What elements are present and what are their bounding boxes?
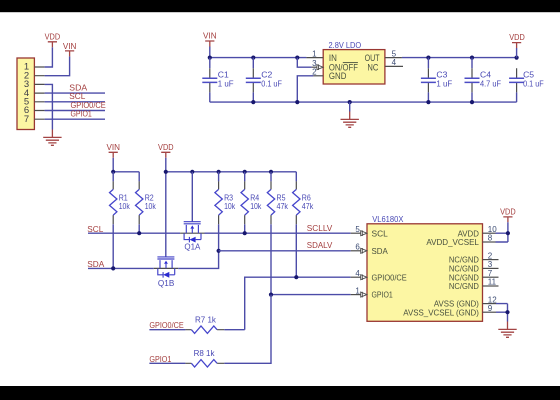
power flag VIN (pull-up rail) bbox=[106, 143, 120, 158]
U1 pin 10 stub AVDD bbox=[483, 225, 498, 234]
LDO pin 5 stub OUT bbox=[385, 57, 402, 59]
wire GPIO0/CE to R7 bbox=[149, 329, 185, 331]
LDO pin 1 stub bbox=[306, 57, 323, 59]
svg-text:VDD: VDD bbox=[500, 208, 516, 217]
svg-text:1: 1 bbox=[312, 49, 317, 58]
node VDD rail entry bbox=[164, 170, 168, 174]
svg-text:AVDD_VCSEL: AVDD_VCSEL bbox=[426, 237, 479, 247]
svg-text:10k: 10k bbox=[119, 202, 131, 211]
svg-text:1: 1 bbox=[355, 286, 360, 295]
wire LDO pin2 GND to bottom rail bbox=[297, 76, 313, 102]
resistor R8 1k bbox=[185, 349, 224, 367]
connector J1 body bbox=[17, 58, 34, 130]
U1 pin 7 stub NC/GND bbox=[483, 269, 499, 278]
svg-text:0.1 uF: 0.1 uF bbox=[261, 79, 282, 88]
node C3 top bbox=[426, 56, 430, 60]
svg-text:VIN: VIN bbox=[203, 32, 217, 41]
svg-text:1 uF: 1 uF bbox=[218, 79, 234, 88]
power flag VIN (connector) bbox=[63, 42, 77, 57]
svg-text:AVSS_VCSEL (GND): AVSS_VCSEL (GND) bbox=[403, 308, 479, 318]
node C3 bottom bbox=[426, 100, 430, 104]
svg-text:VIN: VIN bbox=[63, 42, 77, 51]
wire ground stub (LDO) bbox=[349, 102, 351, 111]
svg-text:SDALV: SDALV bbox=[307, 241, 333, 250]
U1 pin 1 GPIO1 stub with marker bbox=[351, 286, 367, 297]
svg-text:10k: 10k bbox=[250, 202, 262, 211]
wire LDO OUT to VDD bbox=[402, 57, 517, 59]
U1 pin 6 SDA stub with marker bbox=[351, 243, 367, 254]
node R4 bottom on SCLLV bbox=[243, 231, 247, 235]
wire SDA to Q1B bbox=[88, 267, 154, 269]
wire VDD flag down to Q1B gate bbox=[165, 158, 167, 257]
node C4 top bbox=[470, 56, 474, 60]
node C5/VDD bbox=[515, 56, 519, 60]
wire ON/OFF branch to LDO pin3 bbox=[297, 58, 311, 68]
U1 pin 5 SCL stub with marker bbox=[351, 225, 367, 236]
LDO pin 3 stub with input marker bbox=[312, 66, 317, 68]
U1 pin 9 stub AVSS_VCSEL bbox=[483, 304, 497, 313]
svg-text:Q1A: Q1A bbox=[184, 243, 201, 252]
resistor R5 47k bbox=[267, 172, 288, 295]
svg-text:3: 3 bbox=[488, 260, 493, 269]
capacitor C1 bbox=[202, 58, 233, 103]
IC U1 VL6180X body bbox=[367, 224, 483, 321]
svg-text:SCL: SCL bbox=[372, 228, 389, 238]
wire Q1A gate bbox=[191, 172, 193, 222]
svg-text:GPIO1: GPIO1 bbox=[149, 355, 171, 364]
LDO pin 2 stub bbox=[313, 75, 323, 77]
bottom letterbox bar bbox=[0, 386, 560, 400]
node R5 top bbox=[269, 170, 273, 174]
svg-text:SDA: SDA bbox=[372, 246, 389, 256]
ground (connector) bbox=[43, 130, 61, 146]
transistor Q1B bbox=[154, 257, 178, 278]
wire GPIO1 to R8 bbox=[149, 362, 185, 364]
wire VIN flag to rail bbox=[209, 47, 211, 58]
svg-text:4: 4 bbox=[392, 58, 397, 67]
wire chip AVSS pins to ground bbox=[496, 304, 508, 322]
svg-text:5: 5 bbox=[392, 49, 397, 58]
svg-text:0.1 uF: 0.1 uF bbox=[523, 79, 544, 88]
U1 pin 2 stub NC/GND bbox=[483, 251, 499, 260]
wire SDA (connector) bbox=[45, 92, 105, 94]
wire Q1B to SDALV bbox=[178, 251, 218, 269]
wire SCLLV Q1A to chip pin 5 bbox=[205, 232, 351, 234]
svg-text:2.8V LDO: 2.8V LDO bbox=[329, 41, 362, 50]
svg-text:C5: C5 bbox=[523, 71, 534, 80]
svg-text:7: 7 bbox=[488, 269, 493, 278]
svg-text:GPIO0/CE: GPIO0/CE bbox=[149, 321, 184, 330]
wire R8 up to GPIO1 node bbox=[224, 295, 271, 364]
ground (LDO section) bbox=[341, 112, 359, 128]
U1 pin 11 stub NC/GND bbox=[483, 278, 499, 287]
svg-text:10k: 10k bbox=[145, 202, 157, 211]
U1 pin 4 GPIO0/CE stub with marker bbox=[351, 269, 367, 280]
svg-text:NC/GND: NC/GND bbox=[449, 281, 479, 291]
node R6 bottom on GPIO0/CE bbox=[294, 275, 298, 279]
power flag VIN (regulator input) bbox=[203, 32, 217, 47]
svg-text:VDD: VDD bbox=[45, 33, 61, 42]
wire pin3 to ground bbox=[45, 84, 53, 129]
resistor R6 47k bbox=[293, 172, 314, 277]
connector pin stubs 1-7 bbox=[34, 67, 44, 119]
capacitor C2 bbox=[246, 58, 282, 103]
resistor R4 10k bbox=[241, 172, 262, 233]
connector pin numbers 1-7 bbox=[24, 62, 29, 125]
LDO pin 4 stub NC bbox=[385, 65, 403, 67]
transistor Q1A bbox=[180, 222, 204, 243]
svg-text:1 uF: 1 uF bbox=[436, 79, 452, 88]
svg-text:11: 11 bbox=[488, 278, 497, 287]
wire VDD flag down bbox=[516, 48, 518, 58]
node ON/OFF branch bbox=[295, 56, 299, 60]
wire GPIO0/CE net to chip pin 4 bbox=[245, 277, 351, 330]
resistor R3 10k bbox=[215, 172, 236, 251]
resistor R1 10k bbox=[110, 172, 131, 269]
node pin10/VDD bbox=[506, 231, 510, 235]
U1 pin 3 stub NC/GND bbox=[483, 260, 499, 269]
capacitor C5 bbox=[509, 68, 544, 102]
wire SCL (connector) bbox=[45, 101, 105, 103]
wire GPIO1 net to chip pin 1 bbox=[271, 294, 351, 296]
svg-text:C1: C1 bbox=[218, 71, 229, 80]
resistor R2 10k bbox=[136, 172, 157, 233]
wire VIN pull-up rail bbox=[113, 171, 139, 173]
node VIN/C1 bbox=[208, 56, 212, 60]
wire GPIO0/CE (connector) bbox=[45, 110, 105, 112]
LDO pin name ON/OFF with overline bbox=[329, 62, 358, 72]
svg-text:C2: C2 bbox=[261, 71, 272, 80]
svg-text:47k: 47k bbox=[302, 202, 314, 211]
svg-text:Q1B: Q1B bbox=[158, 279, 175, 288]
wire VDD pull-up rail bbox=[166, 171, 296, 173]
wire SCL to Q1A bbox=[88, 232, 180, 234]
2.8V LDO regulator U2 body bbox=[323, 50, 385, 84]
ground (chip) bbox=[498, 322, 516, 338]
node pin9/GND bbox=[505, 310, 509, 314]
svg-text:GPIO1: GPIO1 bbox=[372, 290, 394, 300]
svg-text:4.7 uF: 4.7 uF bbox=[480, 79, 501, 88]
svg-text:6: 6 bbox=[355, 243, 360, 252]
wire SDALV to chip pin 6 bbox=[219, 250, 351, 252]
node R1 bottom on SDA bbox=[111, 266, 115, 270]
wire GPIO1 (connector) bbox=[45, 118, 105, 120]
node SDALV junction R3 bbox=[217, 249, 221, 253]
svg-text:SCL: SCL bbox=[69, 92, 85, 101]
svg-text:VDD: VDD bbox=[509, 33, 525, 42]
svg-text:2: 2 bbox=[312, 68, 317, 77]
capacitor C4 bbox=[465, 58, 502, 103]
svg-text:SCLLV: SCLLV bbox=[307, 224, 333, 233]
top letterbox bar bbox=[0, 0, 560, 12]
svg-text:VL6180X: VL6180X bbox=[372, 215, 404, 224]
power flag VDD (connector) bbox=[45, 33, 61, 48]
svg-text:C3: C3 bbox=[436, 71, 447, 80]
wire top rail VIN to LDO pin1 bbox=[210, 57, 307, 59]
svg-text:GPIO0/CE: GPIO0/CE bbox=[372, 272, 408, 282]
U1 pin 12 stub AVSS bbox=[483, 295, 498, 304]
node R3 top bbox=[217, 170, 221, 174]
svg-text:C4: C4 bbox=[480, 71, 491, 80]
svg-text:47k: 47k bbox=[277, 202, 289, 211]
wire pin2 to VIN bbox=[45, 56, 70, 75]
svg-text:8: 8 bbox=[488, 234, 493, 243]
svg-text:GND: GND bbox=[329, 71, 347, 81]
node R2 bottom on SCL bbox=[137, 231, 141, 235]
node C2 bottom bbox=[251, 100, 255, 104]
svg-text:SDA: SDA bbox=[69, 84, 87, 93]
svg-text:VIN: VIN bbox=[106, 143, 120, 152]
node ground tap bbox=[348, 100, 352, 104]
svg-text:GPIO0/CE: GPIO0/CE bbox=[71, 101, 107, 110]
svg-text:2: 2 bbox=[488, 251, 493, 260]
node C4 bottom bbox=[470, 100, 474, 104]
node R5/R8 on GPIO1 bbox=[269, 293, 273, 297]
U1 pin 8 stub AVDD_VCSEL bbox=[483, 234, 496, 243]
svg-text:R7 1k: R7 1k bbox=[195, 316, 217, 325]
power flag VDD (regulator output) bbox=[509, 33, 525, 48]
svg-text:VDD: VDD bbox=[158, 143, 174, 152]
svg-text:3: 3 bbox=[312, 59, 317, 68]
svg-text:GPIO1: GPIO1 bbox=[71, 110, 93, 119]
svg-text:R8 1k: R8 1k bbox=[194, 349, 216, 358]
svg-text:10k: 10k bbox=[224, 202, 236, 211]
capacitor C3 bbox=[421, 58, 452, 103]
svg-text:4: 4 bbox=[355, 269, 360, 278]
node VIN rail / R1 bbox=[111, 170, 115, 174]
node GND wire bbox=[295, 100, 299, 104]
resistor R7 1k bbox=[185, 316, 244, 334]
node C2 top bbox=[251, 56, 255, 60]
node Q1A gate tap bbox=[190, 170, 194, 174]
svg-text:5: 5 bbox=[355, 225, 360, 234]
wire chip AVDD/AVDD_VCSEL to VDD bbox=[496, 222, 508, 242]
node R4 top bbox=[243, 170, 247, 174]
svg-text:9: 9 bbox=[488, 304, 493, 313]
svg-text:7: 7 bbox=[24, 114, 29, 125]
power flag VDD (chip) bbox=[500, 208, 516, 223]
wire bottom rail bbox=[210, 101, 517, 103]
wire VIN flag to rail bbox=[112, 158, 114, 172]
svg-text:NC: NC bbox=[367, 62, 378, 72]
power flag VDD (pull-up rail) bbox=[158, 143, 174, 158]
wire pin1 to VDD bbox=[45, 47, 53, 67]
